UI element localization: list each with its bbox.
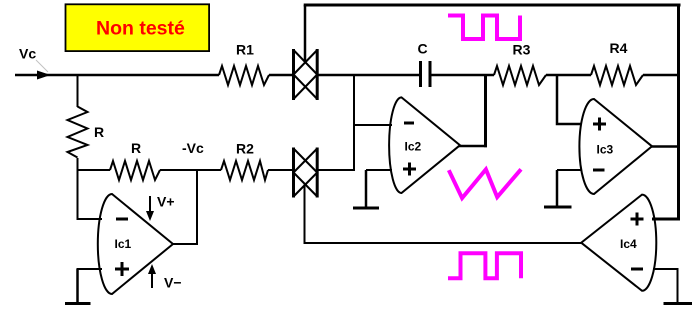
wire main input row xyxy=(15,74,219,77)
wire Ic4 non-inverting input to right bus xyxy=(652,218,680,221)
resistor R (horizontal) xyxy=(78,140,222,180)
wire Ic3 output xyxy=(651,145,680,148)
wire Ic4 inverting input to ground xyxy=(653,269,678,302)
wire capacitor to R3 xyxy=(432,74,495,77)
wire S2 control down xyxy=(304,185,306,244)
label Vc xyxy=(19,46,48,73)
wire top rail xyxy=(304,4,681,7)
svg-text:V+: V+ xyxy=(157,194,175,210)
note box "Non testé" xyxy=(66,4,210,51)
wire Ic1 non-inverting input xyxy=(77,268,103,270)
svg-text:R3: R3 xyxy=(513,42,531,58)
wire S2 output to node xyxy=(319,169,355,171)
wire R2 to switch S2 xyxy=(268,169,292,171)
waveform square wave top xyxy=(448,16,520,40)
ground Ic2 xyxy=(353,170,379,208)
svg-text:Ic1: Ic1 xyxy=(115,237,132,251)
wire R4 to right bus xyxy=(643,74,679,77)
wire S1 output to capacitor xyxy=(319,74,420,77)
V- supply arrow xyxy=(148,264,182,291)
node line to Ic2 inverting input xyxy=(353,74,355,171)
ground Ic3 xyxy=(544,170,572,207)
ground Ic1 xyxy=(65,269,91,304)
wire S1 control to top rail xyxy=(304,5,307,61)
ground Ic4 xyxy=(664,302,693,305)
svg-text:C: C xyxy=(418,41,428,57)
svg-text:Ic4: Ic4 xyxy=(620,237,637,251)
wire Ic2 non-inverting input xyxy=(366,169,392,171)
resistor R1 xyxy=(219,42,269,86)
wire Ic3 inverting input to ground xyxy=(557,169,581,171)
input arrow xyxy=(37,71,51,80)
wire feedback node down to Ic2 output xyxy=(484,75,487,147)
wire Ic2 output xyxy=(459,145,487,148)
svg-text:Non testé: Non testé xyxy=(96,18,185,40)
svg-text:V−: V− xyxy=(164,275,182,291)
resistor R4 xyxy=(591,40,643,85)
wire Ic1 inverting input xyxy=(77,218,103,220)
svg-text:R: R xyxy=(94,124,104,140)
svg-text:Ic3: Ic3 xyxy=(597,143,614,157)
op-amp Ic3 xyxy=(579,99,652,194)
svg-text:Ic2: Ic2 xyxy=(405,140,422,154)
wire bottom rail to Ic4 output xyxy=(304,242,582,244)
svg-text:-Vc: -Vc xyxy=(182,140,204,156)
svg-text:R4: R4 xyxy=(610,40,628,56)
op-amp Ic4 xyxy=(581,195,656,291)
wire Ic1 output xyxy=(173,170,197,244)
wire R1 to switch S1 xyxy=(269,74,292,77)
waveform triangle wave xyxy=(449,169,521,198)
resistor R (vertical) xyxy=(68,75,105,219)
analog switch S1 xyxy=(294,49,318,100)
wire Ic2 inverting input xyxy=(354,124,392,126)
wire R3 to R4 xyxy=(546,74,591,77)
wire node down to Ic3 non-inverting input xyxy=(557,75,581,124)
resistor R2 xyxy=(221,141,268,181)
svg-text:R2: R2 xyxy=(236,141,254,157)
capacitor C xyxy=(418,41,432,88)
svg-text:Vc: Vc xyxy=(19,46,36,62)
svg-text:R1: R1 xyxy=(236,42,254,58)
resistor R3 xyxy=(494,42,546,86)
wire right bus xyxy=(677,4,680,219)
op-amp Ic2 xyxy=(389,97,460,193)
waveform square wave bottom xyxy=(448,253,521,278)
analog switch S2 xyxy=(294,148,318,198)
V+ supply arrow xyxy=(146,194,175,222)
svg-text:R: R xyxy=(131,140,141,156)
op-amp Ic1 xyxy=(98,194,173,294)
